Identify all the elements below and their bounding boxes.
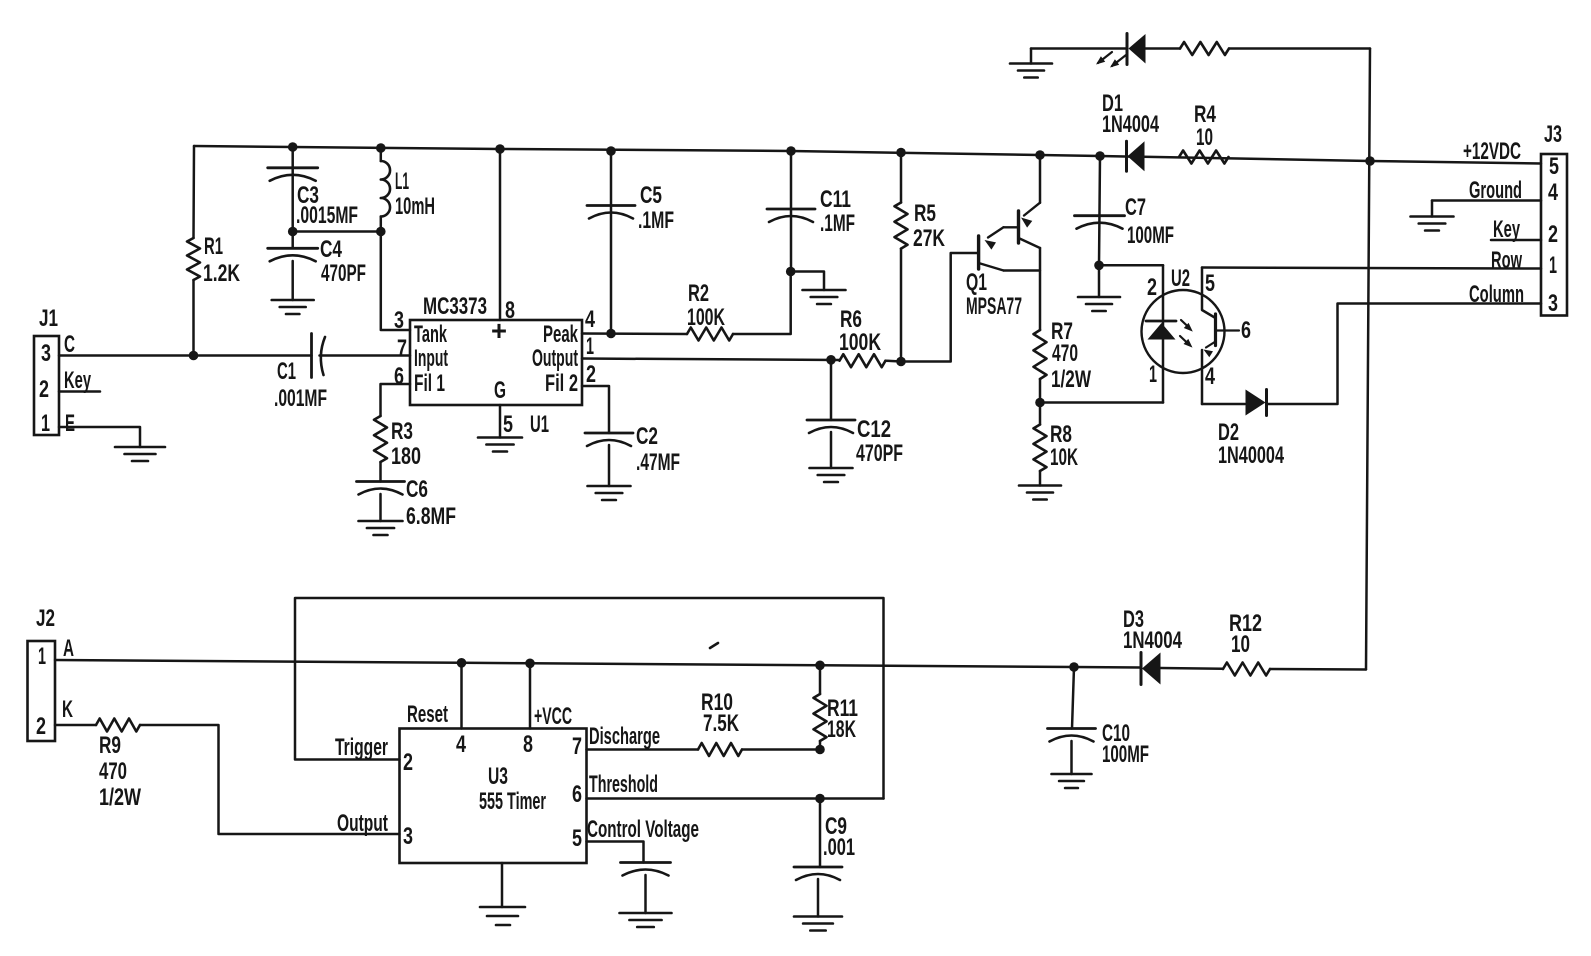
stray mark: [710, 643, 718, 648]
svg-text:C11: C11: [820, 186, 851, 213]
node (bus/C5): [606, 146, 616, 156]
node (bus/C11): [786, 146, 796, 156]
wire: [1161, 667, 1224, 670]
wire (U1 pin5 to ground): [499, 405, 502, 438]
IC U1 MC3373 body: [410, 320, 582, 405]
svg-text:C5: C5: [640, 182, 662, 209]
svg-text:1N4004: 1N4004: [1102, 111, 1159, 138]
node (bus/pin8): [495, 144, 505, 154]
svg-text:27K: 27K: [913, 225, 945, 252]
capacitor C3: [268, 166, 318, 169]
svg-text:Q1: Q1: [966, 269, 987, 296]
capacitor C7: [1075, 214, 1125, 217]
svg-text:C7: C7: [1125, 194, 1146, 221]
U2 LED: [1162, 265, 1165, 402]
svg-text:C4: C4: [320, 236, 342, 263]
svg-text:J3: J3: [1544, 121, 1562, 148]
wire (bus left drop to R1): [192, 146, 195, 238]
svg-text:3: 3: [41, 340, 51, 367]
wire (C11 ground stub): [791, 272, 824, 291]
node (pin4/C5): [606, 329, 616, 339]
diode D1: [1125, 141, 1128, 171]
svg-text:Input: Input: [414, 345, 448, 372]
svg-text:100K: 100K: [687, 304, 725, 331]
ground (U3 pin1): [480, 906, 525, 909]
ground (C6): [359, 520, 403, 523]
svg-text:Output: Output: [532, 345, 578, 372]
wire (Threshold pin6): [587, 797, 884, 800]
capacitor C10: [1072, 667, 1074, 729]
svg-text:2: 2: [39, 376, 49, 403]
ground (C4): [272, 299, 314, 302]
resistor R3: [374, 416, 387, 462]
svg-text:4: 4: [1548, 179, 1558, 206]
svg-text:C6: C6: [406, 476, 428, 503]
svg-text:.0015MF: .0015MF: [296, 202, 358, 229]
svg-text:C: C: [64, 331, 75, 358]
ground (C12): [810, 467, 853, 470]
resistor R5: [895, 203, 908, 249]
wire (bus to U1 pin8): [499, 149, 502, 320]
wire (Discharge pin7): [587, 748, 699, 751]
svg-text:U3: U3: [488, 763, 508, 790]
svg-text:1: 1: [38, 643, 46, 670]
svg-text:R9: R9: [99, 732, 121, 759]
svg-text:J1: J1: [39, 305, 58, 332]
wire (Reset pin4): [460, 663, 463, 729]
svg-text:.1MF: .1MF: [820, 210, 855, 237]
optocoupler U2 body: [1142, 290, 1225, 373]
resistor R9: [96, 719, 140, 732]
connector J2: [28, 641, 56, 741]
svg-text:Column: Column: [1469, 281, 1524, 308]
wire (bus to R5): [900, 153, 903, 203]
svg-text:MPSA77: MPSA77: [966, 293, 1022, 320]
svg-text:7: 7: [397, 335, 407, 362]
transistor Q1: [1039, 155, 1042, 203]
ground (top LED string): [1010, 62, 1052, 65]
node (A/C10): [1069, 662, 1079, 672]
node (bus/L1): [376, 143, 386, 153]
wire (right-side vertical): [1366, 49, 1370, 670]
svg-text:Fil 1: Fil 1: [414, 370, 445, 397]
svg-text:10mH: 10mH: [395, 193, 435, 220]
ground (C7): [1078, 296, 1120, 299]
svg-text:470: 470: [99, 758, 127, 785]
wire (+12V top bus): [194, 146, 1541, 164]
svg-text:470PF: 470PF: [856, 440, 903, 467]
wire (K lead): [55, 724, 96, 727]
ground (C11): [803, 289, 846, 292]
wire (U1 pin6 to R3): [381, 384, 411, 416]
capacitor C2: [585, 432, 633, 435]
node (R10/R11 junction): [815, 745, 825, 755]
wire (U2 pin4 to D2): [1202, 403, 1245, 406]
wire (J1 pin1 E lead): [59, 427, 140, 447]
node (Threshold/C9): [815, 794, 825, 804]
svg-text:U2: U2: [1171, 265, 1190, 292]
wire (J1 pin2 Key stub): [59, 390, 100, 393]
wire (J1 pin3 C line): [59, 354, 312, 357]
svg-text:C1: C1: [277, 358, 296, 385]
wire (bus to C5): [610, 151, 613, 334]
node (C11/R2 junction): [786, 267, 796, 277]
wire (C7 to ground): [1098, 265, 1101, 297]
capacitor C8 (unlabeled): [621, 861, 671, 864]
ground (U1 pin5): [478, 436, 522, 439]
wire (R9 to U3 pin3): [140, 725, 400, 834]
capacitor C11: [767, 208, 815, 211]
svg-text:Reset: Reset: [407, 701, 448, 728]
ground (C2): [588, 485, 631, 488]
svg-text:3: 3: [394, 307, 404, 334]
svg-text:.001MF: .001MF: [274, 385, 327, 412]
svg-text:10K: 10K: [1050, 444, 1078, 471]
svg-text:E: E: [65, 410, 75, 437]
wire (U3 pin1 ground): [501, 863, 504, 907]
node (R1/J1 junction): [189, 351, 199, 361]
wire (C1 to U1 pin7): [320, 354, 411, 357]
svg-text:K: K: [62, 696, 73, 723]
resistor R10: [698, 743, 742, 756]
svg-text:A: A: [63, 635, 74, 662]
svg-text:1.2K: 1.2K: [203, 260, 240, 287]
capacitor C1: [310, 334, 313, 378]
ground (C8): [620, 912, 672, 915]
wire: [1146, 47, 1181, 50]
svg-text:R2: R2: [688, 280, 709, 307]
wire: [1031, 47, 1127, 50]
svg-text:470PF: 470PF: [321, 260, 366, 287]
svg-text:7: 7: [572, 733, 582, 760]
svg-text:5: 5: [1549, 153, 1559, 180]
svg-text:2: 2: [1147, 274, 1157, 301]
svg-text:5: 5: [503, 411, 513, 438]
node (pin1/C12): [826, 355, 836, 365]
svg-text:3: 3: [403, 823, 413, 850]
wire: [1039, 379, 1042, 403]
node (A/R11): [815, 661, 825, 671]
capacitor C12: [830, 360, 833, 420]
resistor R8: [1039, 403, 1042, 425]
IC U3 555 body: [400, 729, 587, 864]
node (bus/C7): [1095, 151, 1105, 161]
connector J3: [1541, 154, 1567, 316]
wire (U1 pin4 line): [582, 332, 687, 335]
svg-text:1: 1: [1149, 361, 1157, 388]
wire: [742, 748, 820, 751]
wire: [192, 280, 195, 356]
svg-text:Fil 2: Fil 2: [545, 370, 578, 397]
svg-text:100MF: 100MF: [1102, 741, 1149, 768]
capacitor C5: [587, 204, 635, 207]
svg-text:Key: Key: [64, 367, 91, 394]
wire: [1229, 47, 1370, 50]
wire (Row line U2 pin5 to J3 pin1): [1202, 268, 1541, 269]
node (bus/C3): [288, 142, 298, 152]
svg-text:Threshold: Threshold: [589, 771, 658, 798]
node (L1/C4 junction): [376, 227, 386, 237]
svg-text:R3: R3: [391, 418, 413, 445]
svg-text:C12: C12: [857, 416, 891, 443]
svg-text:1: 1: [1549, 252, 1557, 279]
svg-text:3: 3: [1548, 290, 1558, 317]
wire (Control Voltage pin5): [587, 842, 644, 863]
capacitor C4: [291, 232, 294, 249]
wire: [291, 147, 294, 232]
svg-text:2: 2: [586, 361, 596, 388]
LED (top, unlabeled): [1126, 34, 1129, 65]
svg-text:2: 2: [403, 749, 413, 776]
resistor R2: [687, 328, 733, 341]
resistor R4: [1179, 151, 1229, 164]
svg-text:2: 2: [1548, 221, 1558, 248]
svg-text:5: 5: [1205, 270, 1215, 297]
wire: [1270, 668, 1366, 671]
svg-text:7.5K: 7.5K: [703, 710, 739, 737]
wire: [886, 359, 902, 362]
wire (D2 to Column): [1267, 304, 1542, 405]
resistor R6: [840, 354, 886, 367]
node (C7 bottom junction): [1094, 261, 1104, 271]
svg-text:+12VDC: +12VDC: [1463, 138, 1521, 165]
svg-text:G: G: [494, 377, 506, 404]
U2 phototransistor: [1202, 268, 1216, 319]
svg-text:6: 6: [1241, 317, 1251, 344]
diode D2: [1265, 390, 1268, 416]
capacitor C6: [357, 480, 405, 483]
svg-text:1: 1: [586, 333, 594, 360]
svg-text:+VCC: +VCC: [534, 703, 572, 730]
svg-text:.001: .001: [823, 834, 855, 861]
wire (to Q1 base): [901, 253, 979, 362]
ground (J3 pin4): [1411, 215, 1454, 218]
svg-text:1: 1: [41, 410, 50, 437]
svg-text:MC3373: MC3373: [423, 293, 487, 320]
node (R7/R8/U2 junction): [1035, 398, 1045, 408]
wire (L1 to U1 pin3): [381, 232, 410, 331]
ground (C10): [1052, 773, 1092, 776]
node (bus/R5): [896, 148, 906, 158]
wire (R2 to C11): [733, 272, 791, 335]
svg-text:555 Timer: 555 Timer: [479, 788, 546, 815]
inductor L1: [380, 148, 383, 161]
wire (Key pin2 stub): [1491, 239, 1541, 242]
svg-text:.47MF: .47MF: [636, 449, 680, 476]
svg-text:Output: Output: [337, 810, 388, 837]
wire (feedback loop): [295, 598, 884, 799]
svg-text:1N4004: 1N4004: [1123, 627, 1182, 654]
svg-text:L1: L1: [395, 168, 409, 195]
wire: [900, 249, 903, 362]
svg-text:4: 4: [456, 731, 466, 758]
wire: [379, 462, 382, 482]
wire: [1039, 471, 1042, 486]
wire (U1 pin2 to C2): [582, 386, 609, 433]
svg-text:470: 470: [1052, 340, 1078, 367]
resistor R7: [1034, 330, 1047, 379]
svg-text:10: 10: [1196, 124, 1213, 151]
ground (C9): [794, 915, 842, 918]
wire (A line): [55, 660, 1140, 668]
svg-text:Peak: Peak: [543, 321, 578, 348]
svg-text:5: 5: [572, 825, 582, 852]
wire (U1 pin1 Peak Output line): [582, 359, 840, 361]
node (R6/R5 junction): [896, 357, 906, 367]
ground (J1 pin1): [115, 446, 165, 449]
connector J1: [34, 336, 59, 435]
node (bus/Q1): [1035, 150, 1045, 160]
svg-text:4: 4: [585, 306, 595, 333]
wire (bus to C11): [790, 151, 793, 272]
svg-text:Discharge: Discharge: [589, 723, 660, 750]
svg-text:1N40004: 1N40004: [1218, 442, 1284, 469]
svg-text:1/2W: 1/2W: [1051, 366, 1091, 393]
wire (+VCC pin8): [529, 663, 532, 728]
wire (bus to C7): [1099, 156, 1100, 265]
svg-text:U1: U1: [530, 411, 549, 438]
svg-text:1/2W: 1/2W: [99, 784, 141, 811]
svg-text:2: 2: [36, 713, 46, 740]
node (A/+VCC): [525, 659, 535, 669]
capacitor C9: [819, 799, 822, 868]
svg-text:Trigger: Trigger: [335, 734, 388, 761]
resistor (top, unlabeled): [1180, 42, 1229, 55]
node (C3/C4 junction): [288, 227, 298, 237]
svg-text:.1MF: .1MF: [638, 207, 674, 234]
resistor R1: [187, 238, 200, 280]
resistor R11: [819, 665, 822, 694]
node (A/Reset): [457, 658, 467, 668]
diode D3: [1140, 653, 1143, 685]
resistor R12: [1223, 663, 1270, 676]
wire (to U2 pin1): [1040, 401, 1163, 404]
svg-text:4: 4: [1205, 363, 1215, 390]
wire: [293, 230, 381, 233]
svg-text:8: 8: [523, 731, 533, 758]
svg-text:180: 180: [391, 443, 421, 470]
svg-text:6: 6: [394, 363, 404, 390]
svg-text:Control Voltage: Control Voltage: [587, 816, 699, 843]
svg-text:6: 6: [572, 781, 582, 808]
svg-text:10: 10: [1231, 631, 1250, 658]
svg-text:Row: Row: [1491, 247, 1522, 274]
ground (R8): [1019, 484, 1061, 487]
svg-text:18K: 18K: [827, 716, 856, 743]
wire (C7 junction to U2 pin2): [1099, 264, 1163, 267]
svg-text:100K: 100K: [839, 329, 881, 356]
svg-text:J2: J2: [36, 605, 55, 632]
svg-text:6.8MF: 6.8MF: [406, 503, 456, 530]
node (bus/right vertical): [1365, 156, 1375, 166]
svg-text:C2: C2: [636, 423, 658, 450]
svg-text:100MF: 100MF: [1127, 222, 1174, 249]
wire (Ground pin4): [1432, 199, 1541, 202]
svg-text:R5: R5: [914, 200, 936, 227]
svg-text:R1: R1: [204, 233, 223, 260]
svg-text:Tank: Tank: [414, 321, 447, 348]
